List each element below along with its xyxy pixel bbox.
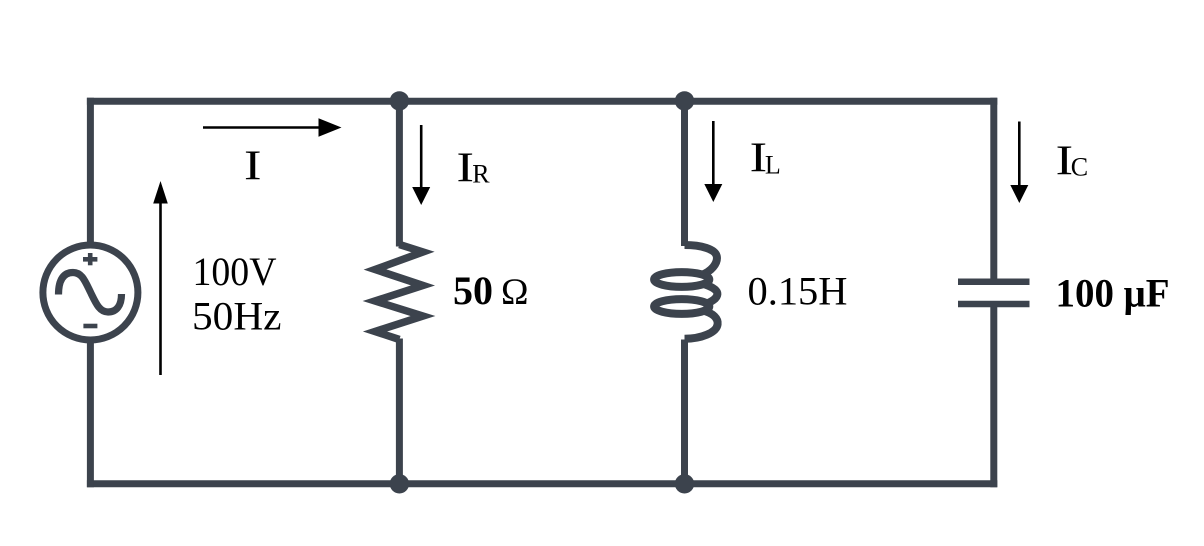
AC source V1	[43, 245, 138, 340]
capacitor C1 bottom plate	[958, 301, 1030, 308]
wire capacitor branch bottom	[990, 304, 997, 487]
node junction dot bottom resistor	[390, 474, 409, 493]
source voltage arrow up	[153, 181, 168, 375]
wire top rail	[87, 98, 997, 105]
current arrow IC	[1010, 122, 1028, 204]
svg-text:100V: 100V	[193, 249, 277, 294]
resistor R1	[375, 245, 423, 340]
current arrow IR	[412, 125, 430, 205]
wire resistor branch bottom	[396, 339, 403, 484]
svg-text:I: I	[244, 144, 262, 190]
svg-text:C: C	[1071, 153, 1088, 182]
current arrow IL	[704, 121, 722, 202]
svg-text:L: L	[765, 151, 781, 180]
svg-text:50Hz: 50Hz	[192, 294, 282, 339]
inductor L1	[654, 245, 718, 339]
wire left top segment	[87, 98, 94, 248]
svg-text:50Ω: 50Ω	[453, 268, 529, 313]
current arrow I	[203, 118, 342, 136]
node junction dot top inductor	[675, 91, 694, 110]
wire inductor branch top	[681, 98, 688, 246]
svg-text:100 μF: 100 μF	[1056, 270, 1170, 315]
svg-text:R: R	[472, 160, 490, 189]
svg-text:0.15H: 0.15H	[748, 269, 848, 314]
wire capacitor branch top	[990, 98, 997, 282]
node junction dot top resistor	[390, 91, 409, 110]
wire resistor branch top	[396, 98, 403, 247]
node junction dot bottom inductor	[675, 474, 694, 493]
wire bottom rail	[87, 480, 997, 487]
wire inductor branch bottom	[681, 340, 688, 484]
capacitor C1 top plate	[958, 279, 1030, 286]
wire left bottom segment	[87, 338, 94, 487]
